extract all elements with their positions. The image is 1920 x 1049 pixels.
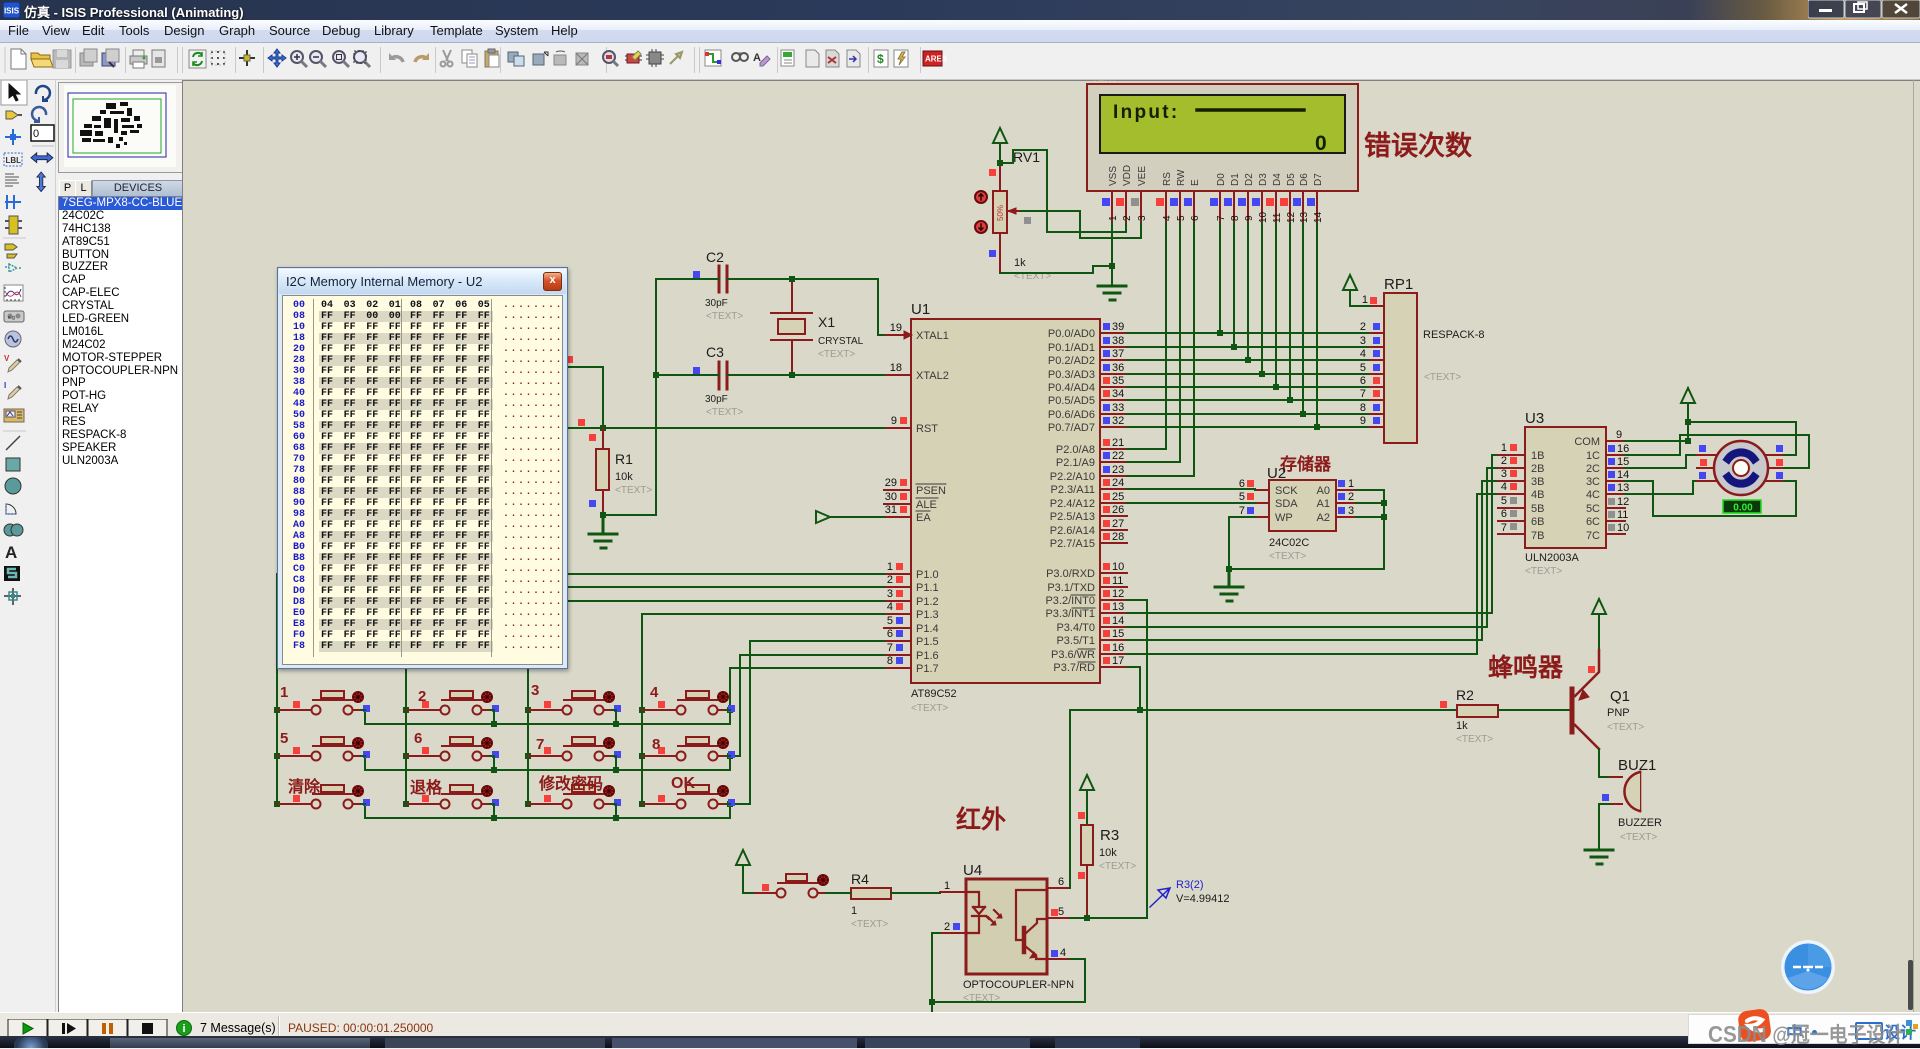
icon toggle grid [211,51,225,65]
svg-text:3: 3 [1137,215,1148,221]
right edge scrollbar sliver [1908,960,1913,1010]
U1 PSEN EA overlines [916,484,946,511]
tool graph mode [4,285,23,301]
wire hidden cap to R1 top [566,367,603,428]
transistor Q1 PNP [1572,650,1644,749]
floating blue assist button [1778,937,1838,997]
wire P0.3 row [1127,373,1370,375]
svg-text:6C: 6C [1586,516,1600,528]
rotate anticlockwise icon [32,107,46,122]
wire LCD D7 drop [1316,223,1318,427]
svg-text:10: 10 [1112,561,1124,573]
svg-text:10: 10 [1258,211,1269,223]
svg-text:D0: D0 [1216,173,1227,186]
svg-text:5: 5 [887,615,893,627]
icon property assignment [753,52,770,66]
svg-text:ULN2003A: ULN2003A [1525,552,1579,564]
svg-text:2: 2 [1122,215,1133,221]
svg-text:6: 6 [1058,876,1064,888]
svg-text:<TEXT>: <TEXT> [911,703,948,714]
wire C3 right to XTAL2 [727,374,884,376]
U1 XTAL1 clock marker [904,331,912,339]
svg-text:19: 19 [890,322,902,334]
junction X1 bottom [789,372,795,378]
svg-text:12: 12 [1286,211,1297,223]
svg-text:U3: U3 [1525,410,1544,427]
svg-text:错误次数: 错误次数 [1364,131,1473,161]
svg-text:P2.5/A13: P2.5/A13 [1050,511,1095,523]
svg-text:30: 30 [885,491,897,503]
overview minimap [58,82,183,173]
icon open design [31,53,53,67]
RP1 pin squares [1370,297,1380,424]
svg-text:P2.4/A12: P2.4/A12 [1050,498,1095,510]
junctions D0-D7 on P0 rows [1217,330,1320,430]
menu bar [0,20,1920,43]
junction U4 pin2 loop [929,999,935,1005]
wire U3 COM to VCC [1625,440,1688,442]
vertical mirror icon [37,172,46,192]
junction X1 top [789,276,795,282]
junction R3 bottom [1084,915,1090,921]
svg-text:8: 8 [887,655,893,667]
svg-text:29: 29 [885,477,897,489]
power symbol above RV1 [993,128,1007,163]
resistor R2 [1440,687,1498,745]
keypad row wire 3 [365,804,730,818]
tool origin marker [4,588,21,605]
svg-text:R3: R3 [1100,827,1119,844]
svg-text:修改密码: 修改密码 [538,774,603,793]
CSDN watermark [1688,1014,1920,1044]
red square on RST wire [578,419,585,426]
tool component mode [6,111,22,119]
icon pick parts [603,51,618,66]
wire LCD D4 drop [1275,223,1277,387]
svg-text:C3: C3 [706,344,724,360]
icon pan [268,49,286,67]
svg-text:9: 9 [891,415,897,427]
motor lead squares [1699,445,1783,479]
svg-text:P1.3: P1.3 [916,609,939,621]
svg-text:5: 5 [280,730,288,747]
svg-text:27: 27 [1112,518,1124,530]
svg-text:RP1: RP1 [1384,276,1413,293]
wire C2 right to XTAL1 [727,279,884,335]
svg-text:蜂鸣器: 蜂鸣器 [1488,653,1564,682]
svg-text:13: 13 [1617,482,1629,494]
svg-text:28: 28 [1112,531,1124,543]
wire U1 P1.6 to keypad row 2 [730,655,884,756]
svg-text:6: 6 [887,628,893,640]
svg-text:21: 21 [1112,437,1124,449]
RP1 pin stubs [1370,306,1384,427]
svg-text:9: 9 [1616,429,1622,441]
svg-text:14: 14 [1617,469,1629,481]
svg-text:7C: 7C [1586,530,1600,542]
P L buttons + devices header [59,180,76,197]
svg-text:COM: COM [1574,436,1600,448]
svg-text:6: 6 [1360,375,1366,387]
wire LCD RS to U1 P2.0 [1127,223,1166,449]
tool 2d text [5,543,17,562]
tool voltage probe [4,354,21,372]
svg-text:2C: 2C [1586,463,1600,475]
wire U2 WP to ground [1229,517,1255,569]
icon make device [625,51,642,63]
svg-text:<TEXT>: <TEXT> [1525,566,1562,577]
icon block delete [576,53,588,65]
svg-text:3: 3 [1348,505,1354,517]
LCD LCD1 LM016L module body [1086,73,1358,191]
icon zoom all [333,51,349,67]
tool wire label [4,153,22,166]
left panels [0,80,31,1012]
svg-text:XTAL2: XTAL2 [916,370,949,382]
svg-text:D3: D3 [1258,173,1269,186]
wire VDD net: LCD pin2 to RV1 top [1000,150,1126,232]
svg-text:ALE: ALE [916,499,937,511]
buzzer BUZ1 [1602,757,1662,843]
icon block rotate [554,51,566,65]
svg-text:Input:: Input: [1113,102,1180,123]
svg-text:P0.5/AD5: P0.5/AD5 [1048,395,1095,407]
LCD pin state squares [1102,198,1315,206]
U4 LED emission arrows [988,910,1002,925]
svg-text:39: 39 [1112,321,1124,333]
svg-text:P3.1/TXD: P3.1/TXD [1047,582,1095,594]
icon zoom out [310,51,326,67]
svg-text:13: 13 [1299,211,1310,223]
optocoupler U4 body [963,862,1074,1004]
wire U4 pin2 pin4 loop [932,933,1085,1002]
button 7 [528,737,621,761]
svg-text:11: 11 [1112,575,1123,587]
svg-text:1: 1 [280,684,288,701]
svg-text:4: 4 [650,684,659,701]
svg-text:i: i [182,1023,185,1035]
motor rpm readout 0.00 [1723,500,1761,514]
svg-text:P2.2/A10: P2.2/A10 [1050,471,1095,483]
power symbol above Q1 [1592,599,1606,650]
svg-text:RW: RW [1176,169,1187,186]
U2 pin numbers [1239,478,1354,517]
svg-text:AT89C52: AT89C52 [911,688,957,700]
svg-text:4C: 4C [1586,489,1600,501]
device list [58,196,183,1014]
icon origin [239,50,255,66]
svg-text:10k: 10k [1099,847,1117,859]
wire Q1 collector to buzzer [1599,749,1610,777]
keypad column junction dots [274,707,733,821]
svg-text:2: 2 [1360,321,1366,333]
svg-text:E: E [1190,179,1201,186]
svg-text:<TEXT>: <TEXT> [1099,861,1136,872]
wire P0.6 row [1127,413,1370,415]
icon electrical check [894,50,908,67]
svg-text:C2: C2 [706,249,724,265]
button 6 [406,737,499,761]
svg-text:35: 35 [1112,375,1124,387]
svg-text:7: 7 [1239,505,1245,517]
icon mark output [152,50,165,67]
svg-text:P2.7/A15: P2.7/A15 [1050,538,1095,550]
horizontal mirror icon [31,153,53,163]
icon design explorer [781,50,794,66]
tool tape recorder [4,311,24,322]
wire LCD E to U1 P2.2 [1127,223,1194,476]
svg-text:<TEXT>: <TEXT> [1424,372,1461,383]
svg-text:5: 5 [1501,495,1507,507]
button 4 [642,691,735,715]
svg-text:P2.1/A9: P2.1/A9 [1056,457,1095,469]
junction VCC branch [1685,419,1691,425]
svg-text:18: 18 [890,362,902,374]
icon decompose [670,52,682,64]
svg-text:23: 23 [1112,464,1124,476]
tool 2d symbol [4,566,20,581]
svg-text:<TEXT>: <TEXT> [1620,832,1657,843]
resistor R3 [1078,812,1136,918]
wire RV1 bottom to ground net [1000,266,1112,273]
icon remove sheet [826,50,839,67]
svg-text:<TEXT>: <TEXT> [818,349,855,360]
svg-text:P0.7/AD7: P0.7/AD7 [1048,422,1095,434]
separator [3,237,26,239]
svg-text:4: 4 [1162,215,1173,221]
wire P0.5 row [1127,399,1370,401]
icon print [130,50,147,68]
svg-text:12: 12 [1617,496,1629,508]
resistor R1 [589,428,652,515]
wire LCD D6 drop [1302,223,1304,414]
svg-text:A: A [5,543,17,562]
junction P3.7/base row [1137,707,1143,713]
svg-text:RV1: RV1 [1013,149,1040,165]
keypad row wire 2 [365,756,730,770]
svg-text:WP: WP [1275,512,1293,524]
tool 2d arc [6,504,16,514]
wire U1 P2.4 to U2 SDA [1127,502,1255,504]
power symbol above R3 [1080,775,1094,825]
status bar [0,1012,1920,1043]
svg-text:10k: 10k [615,471,633,483]
icon bill of materials [874,50,888,67]
svg-text:U1: U1 [911,301,930,318]
taskbar [0,1042,1920,1048]
svg-text:1C: 1C [1586,450,1600,462]
svg-text:50%: 50% [996,205,1005,221]
separator [3,430,26,432]
U3 left pin numbers and squares [1501,442,1507,534]
op U1 AT89C52 body [911,301,1100,714]
tool device pins [5,244,17,258]
U1 right pin names [1045,328,1095,674]
svg-text:5: 5 [1176,215,1187,221]
svg-text:5: 5 [1239,491,1245,503]
svg-text:P0.1/AD1: P0.1/AD1 [1048,342,1095,354]
svg-text:X1: X1 [818,314,835,330]
wire P0.1 row [1127,346,1370,348]
svg-text:26: 26 [1112,504,1124,516]
svg-text:CRYSTAL: CRYSTAL [818,336,864,347]
svg-text:3: 3 [1360,335,1366,347]
svg-text:2: 2 [418,688,426,705]
svg-text:A1: A1 [1317,498,1330,510]
U4 internal phototransistor [1016,890,1047,959]
svg-text:3: 3 [531,682,539,699]
wire R2 to Q1 base [1498,709,1572,711]
svg-text:36: 36 [1112,362,1124,374]
wire U1 P3.2 to opto/R3 node [1127,600,1147,918]
svg-text:4: 4 [887,601,893,613]
icon copy [462,50,477,67]
icon packaging tool [646,49,664,67]
wire LCD D3 drop [1261,223,1263,374]
wire C2 left to ground rail [603,279,719,515]
capacitor C3 [693,344,743,418]
svg-text:0: 0 [1315,132,1327,155]
svg-text:9: 9 [1360,415,1366,427]
svg-text:8: 8 [1230,215,1241,221]
button 1 [277,691,370,715]
svg-text:7: 7 [1216,215,1227,221]
resistor R4 [826,871,891,930]
svg-text:31: 31 [885,504,897,516]
toolbar [0,43,1920,80]
U2 pin stubs [1255,490,1356,517]
wire base row to R2 and U4 pin6 [1070,709,1457,711]
icon refresh display [189,50,206,68]
svg-text:9: 9 [1244,215,1255,221]
svg-text:存储器: 存储器 [1280,454,1332,474]
wire P0.7 row [1127,426,1370,428]
svg-text:<TEXT>: <TEXT> [706,311,743,322]
crystal X1 [771,279,864,375]
svg-text:10: 10 [1617,522,1629,534]
voltage probe R3(2) [1150,879,1230,907]
svg-text:5: 5 [1360,362,1366,374]
svg-text:P1.5: P1.5 [916,636,939,648]
svg-text:24C02C: 24C02C [1269,537,1309,549]
wire U1 P1.0 to keypad column 1 [277,574,884,804]
svg-text:P0.2/AD2: P0.2/AD2 [1048,355,1095,367]
icon goto sheet [847,50,860,67]
svg-text:A2: A2 [1317,512,1330,524]
tool buses [5,195,21,209]
icon save (disabled) [53,50,71,68]
window buttons [1808,0,1920,19]
svg-text:0: 0 [33,128,39,140]
wire LCD D5 drop [1289,223,1291,400]
wire U1 P1.5 to keypad row 3 [730,641,884,804]
LCD pin names VSS VDD VEE RS RW E D0-D7 [1108,165,1324,186]
U1 INT/WR/RD overlines [1071,595,1095,662]
svg-text:P0.3/AD3: P0.3/AD3 [1048,369,1095,381]
tool selection pointer (active) [1,80,27,105]
icon wire autorouter [705,50,721,66]
svg-text:P3.2/INT0: P3.2/INT0 [1045,595,1095,607]
svg-text:7: 7 [887,642,893,654]
svg-text:12: 12 [1112,588,1124,600]
svg-text:P3.0/RXD: P3.0/RXD [1046,568,1095,580]
svg-text:6B: 6B [1531,516,1544,528]
wire P0.0 row U1 to RP1 pin2 [1127,332,1370,334]
svg-text:PSEN: PSEN [916,485,946,497]
wire C3 left to ground rail [656,374,719,376]
power symbol above stepper [1681,388,1695,441]
svg-text:V=4.99412: V=4.99412 [1176,893,1230,905]
wire P0.2 row [1127,359,1370,361]
svg-text:P3.7/RD: P3.7/RD [1053,662,1095,674]
svg-text:<TEXT>: <TEXT> [1456,734,1493,745]
button 5 [277,737,370,761]
svg-text:1: 1 [851,905,857,917]
tool text script [5,174,19,186]
stub below junction [931,1002,933,1011]
svg-text:D7: D7 [1313,173,1324,186]
svg-text:1: 1 [1108,215,1119,221]
junction C3 left [653,372,659,378]
svg-text:4: 4 [1501,481,1507,493]
svg-text:<TEXT>: <TEXT> [851,919,888,930]
svg-text:1k: 1k [1014,257,1026,269]
U1 right pin squares [1103,323,1110,664]
icon export section [102,49,119,67]
icon cut [441,50,453,67]
memory U2 24C02C [1267,454,1336,562]
wire LCD D0 drop [1219,223,1221,333]
svg-text:<TEXT>: <TEXT> [1269,551,1306,562]
svg-text:P2.0/A8: P2.0/A8 [1056,444,1095,456]
svg-text:32: 32 [1112,415,1124,427]
svg-text:1: 1 [1501,442,1507,454]
svg-text:7: 7 [536,736,544,753]
icon search tag [732,53,748,61]
svg-text:1: 1 [944,880,950,892]
svg-text:14: 14 [1313,211,1324,223]
tool 2d closed path [4,524,23,536]
app icon [3,2,20,18]
tool junction dot [5,129,21,145]
resistor pack RP1 [1384,276,1485,443]
wire U1 P3.4 to U3 2B [1127,468,1498,627]
svg-text:红外: 红外 [956,805,1006,834]
rotation angle box [31,125,54,141]
svg-text:30pF: 30pF [705,394,728,405]
svg-text:LBL: LBL [6,156,22,165]
button 3 [528,691,621,715]
wire U2 A0 A1 A2 tie [1229,490,1384,569]
junction R1 bottom [600,512,606,518]
wire LCD RW to U1 P2.1 [1127,223,1180,462]
svg-text:退格: 退格 [410,778,443,797]
svg-text:<TEXT>: <TEXT> [615,485,652,496]
power symbol at RP1 pin1 [1343,275,1370,306]
tool current probe [4,381,21,399]
button 2 [406,691,499,715]
svg-text:P1.6: P1.6 [916,650,939,662]
U1 left pin names [916,330,949,675]
ground symbol below LCD pin1 [1098,286,1126,300]
svg-text:8: 8 [652,736,660,753]
wire P0.4 row [1127,386,1370,388]
U3 right pin numbers and squares [1616,429,1629,534]
wire VEE net: LCD pin3 to RV1 wiper [1021,211,1141,238]
svg-text:24: 24 [1112,477,1124,489]
icon block move [533,52,548,65]
svg-text:37: 37 [1112,348,1124,360]
